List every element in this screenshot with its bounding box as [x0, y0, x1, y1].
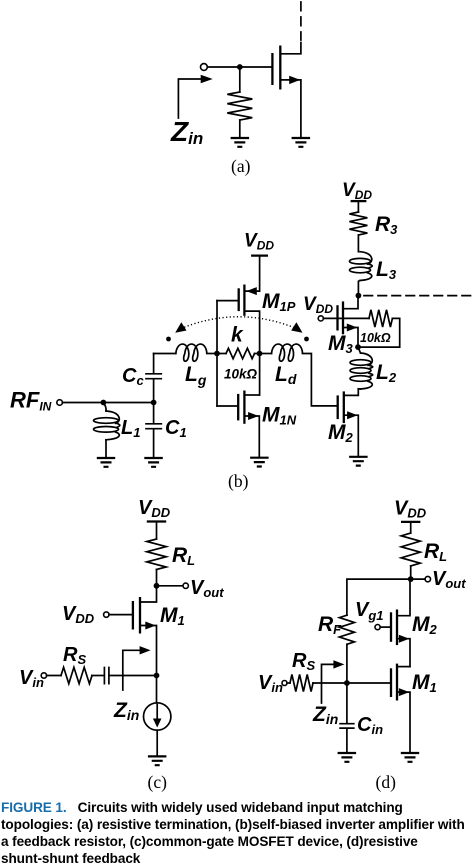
capacitor Cin [340, 683, 354, 753]
node: Zin arrow (d) [322, 664, 335, 703]
wire: Lg to gate node [207, 353, 217, 355]
ground: under current source (c) [148, 756, 167, 765]
node: M1 gate bias terminal (c) [104, 612, 109, 617]
transistor M (a): NMOS [271, 53, 273, 85]
node: Vout (d) [408, 576, 414, 582]
resistor RL (d) [401, 533, 420, 566]
node: coupling dot left [166, 337, 171, 342]
wire: input to C-column [62, 402, 153, 404]
wire: Ld to M2 gate [303, 354, 338, 406]
ground: under C1 [144, 458, 163, 467]
svg-text:10kΩ: 10kΩ [360, 331, 391, 345]
svg-text:k: k [231, 324, 244, 347]
ground: under Cin [338, 753, 357, 762]
ground: under L1 [97, 458, 115, 467]
svg-text:(a): (a) [231, 156, 251, 176]
resistor RS (c) [47, 675, 61, 677]
svg-text:FIGURE 1. Circuits with wide: FIGURE 1. Circuits with widely used wide… [1, 800, 403, 815]
resistor RL (c) [147, 539, 166, 570]
capacitor C1 [146, 403, 161, 459]
node: Vout (c) [154, 583, 160, 589]
resistor 10k feedback (b) [217, 353, 226, 355]
wire: Cc to Lg [154, 353, 176, 355]
node: Zin looking-in arrow (a) [178, 79, 201, 118]
wire: (a) drain dashed stub [300, 2, 302, 40]
ground: (a) under source [292, 138, 311, 147]
svg-text:10kΩ: 10kΩ [224, 367, 258, 382]
resistor RS (d) [287, 682, 290, 684]
resistor (a) termination [239, 67, 241, 92]
svg-text:(d): (d) [376, 772, 397, 792]
transistor M2 (b) NMOS [337, 395, 339, 419]
node: Vin terminal (d) [282, 681, 287, 686]
wire: common gate vertical [216, 301, 218, 406]
node: Zin arrow (c) [123, 650, 140, 690]
inductor L1 [103, 403, 106, 412]
node: input node (d) [344, 680, 350, 686]
node: output to next stage [356, 293, 362, 299]
node: Vin terminal (c) [41, 673, 46, 678]
svg-text:(b): (b) [228, 471, 249, 491]
node: source node (c) [154, 673, 160, 679]
resistor RF feedback [347, 579, 411, 615]
transistor M1N NMOS [217, 405, 238, 407]
resistor 10k (M3 gate-source) [323, 317, 369, 319]
ground: under M2 [349, 457, 368, 466]
svg-text:a feedback resistor, (c)common: a feedback resistor, (c)common-gate MOSF… [1, 834, 418, 849]
transistor M2 (d) cascode [390, 612, 392, 642]
inductor Ld [260, 353, 272, 355]
node: L1 junction [101, 400, 107, 406]
transistor M1 (d) [390, 668, 392, 697]
wire: coupling arc k [178, 317, 301, 330]
svg-text:shunt-shunt feedback: shunt-shunt feedback [1, 851, 141, 865]
ground: (a) under resistor [231, 138, 250, 147]
node: RF_IN terminal [57, 400, 63, 406]
node: M3 source node [355, 344, 361, 350]
wire: dashed output line [364, 295, 474, 297]
node: inverter gate [214, 351, 220, 357]
node: (a) gate/resistor junction [237, 64, 243, 70]
node: coupling dot right [304, 337, 309, 342]
svg-text:topologies: (a) resistive term: topologies: (a) resistive termination, (… [1, 817, 465, 832]
resistor R3 [351, 200, 367, 202]
transistor M1 (c) [132, 601, 134, 630]
ground: under M1N [250, 458, 269, 467]
op-amp? no — transistor M1P PMOS [217, 300, 239, 302]
transistor M3 cascode [336, 305, 338, 330]
power VDD (b inverter) [251, 254, 268, 256]
node: inverter output [257, 351, 263, 357]
current source I (c) [156, 676, 158, 703]
capacitor: (c) series input cap [104, 668, 109, 684]
ground: under M1 (d) [401, 753, 419, 762]
node: M3 gate bias terminal [318, 316, 323, 321]
wire: M1 gate to input node [347, 682, 391, 684]
capacitor Cc [146, 354, 161, 403]
wire: (a) input to gate [207, 66, 272, 68]
node: C column junction [151, 400, 157, 406]
node A: (a) input terminal [201, 64, 208, 71]
svg-text:(c): (c) [148, 772, 168, 792]
node: Vg1 terminal [375, 625, 380, 630]
inductor L2 [358, 347, 361, 353]
inductor L3 [360, 252, 372, 264]
inductor Lg [176, 344, 207, 361]
